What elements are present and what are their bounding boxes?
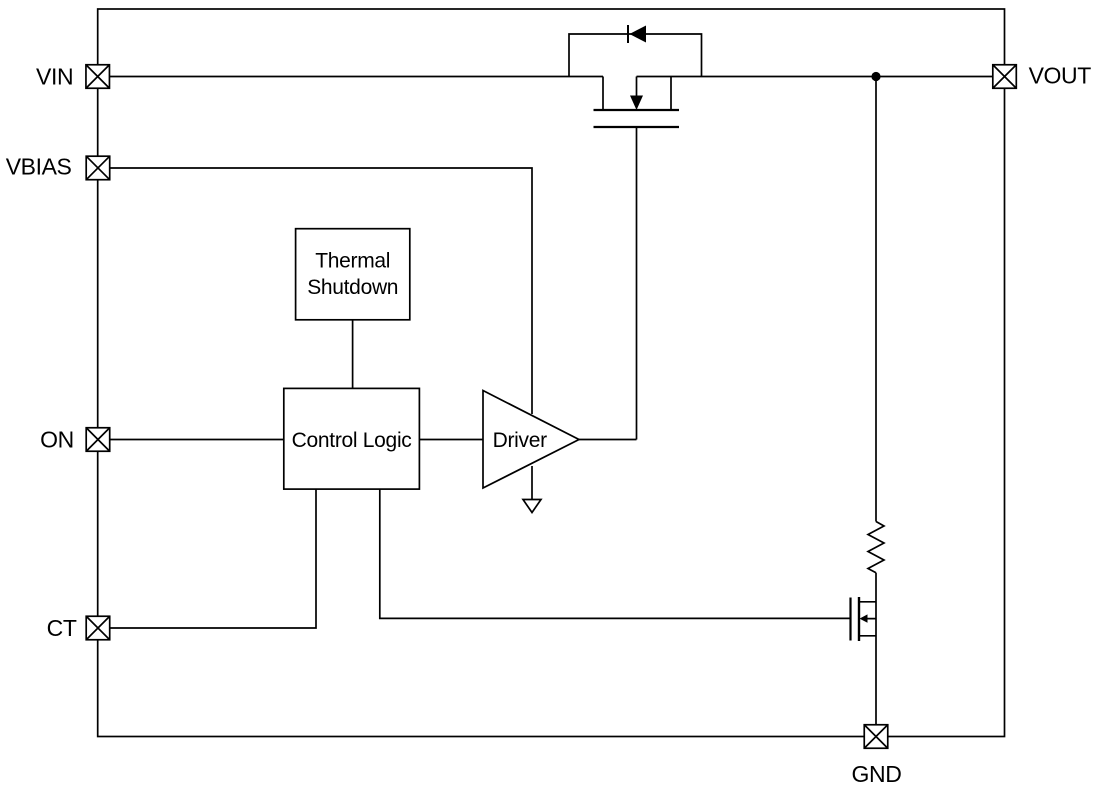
svg-text:Shutdown: Shutdown (307, 276, 398, 299)
svg-text:VIN: VIN (36, 63, 73, 89)
svg-text:Control Logic: Control Logic (292, 429, 412, 452)
svg-text:Thermal: Thermal (315, 249, 390, 272)
svg-text:ON: ON (40, 426, 74, 452)
svg-text:VOUT: VOUT (1029, 63, 1092, 89)
svg-text:GND: GND (852, 761, 902, 787)
svg-text:CT: CT (47, 615, 77, 641)
svg-text:VBIAS: VBIAS (6, 154, 72, 180)
svg-text:Driver: Driver (493, 429, 548, 452)
